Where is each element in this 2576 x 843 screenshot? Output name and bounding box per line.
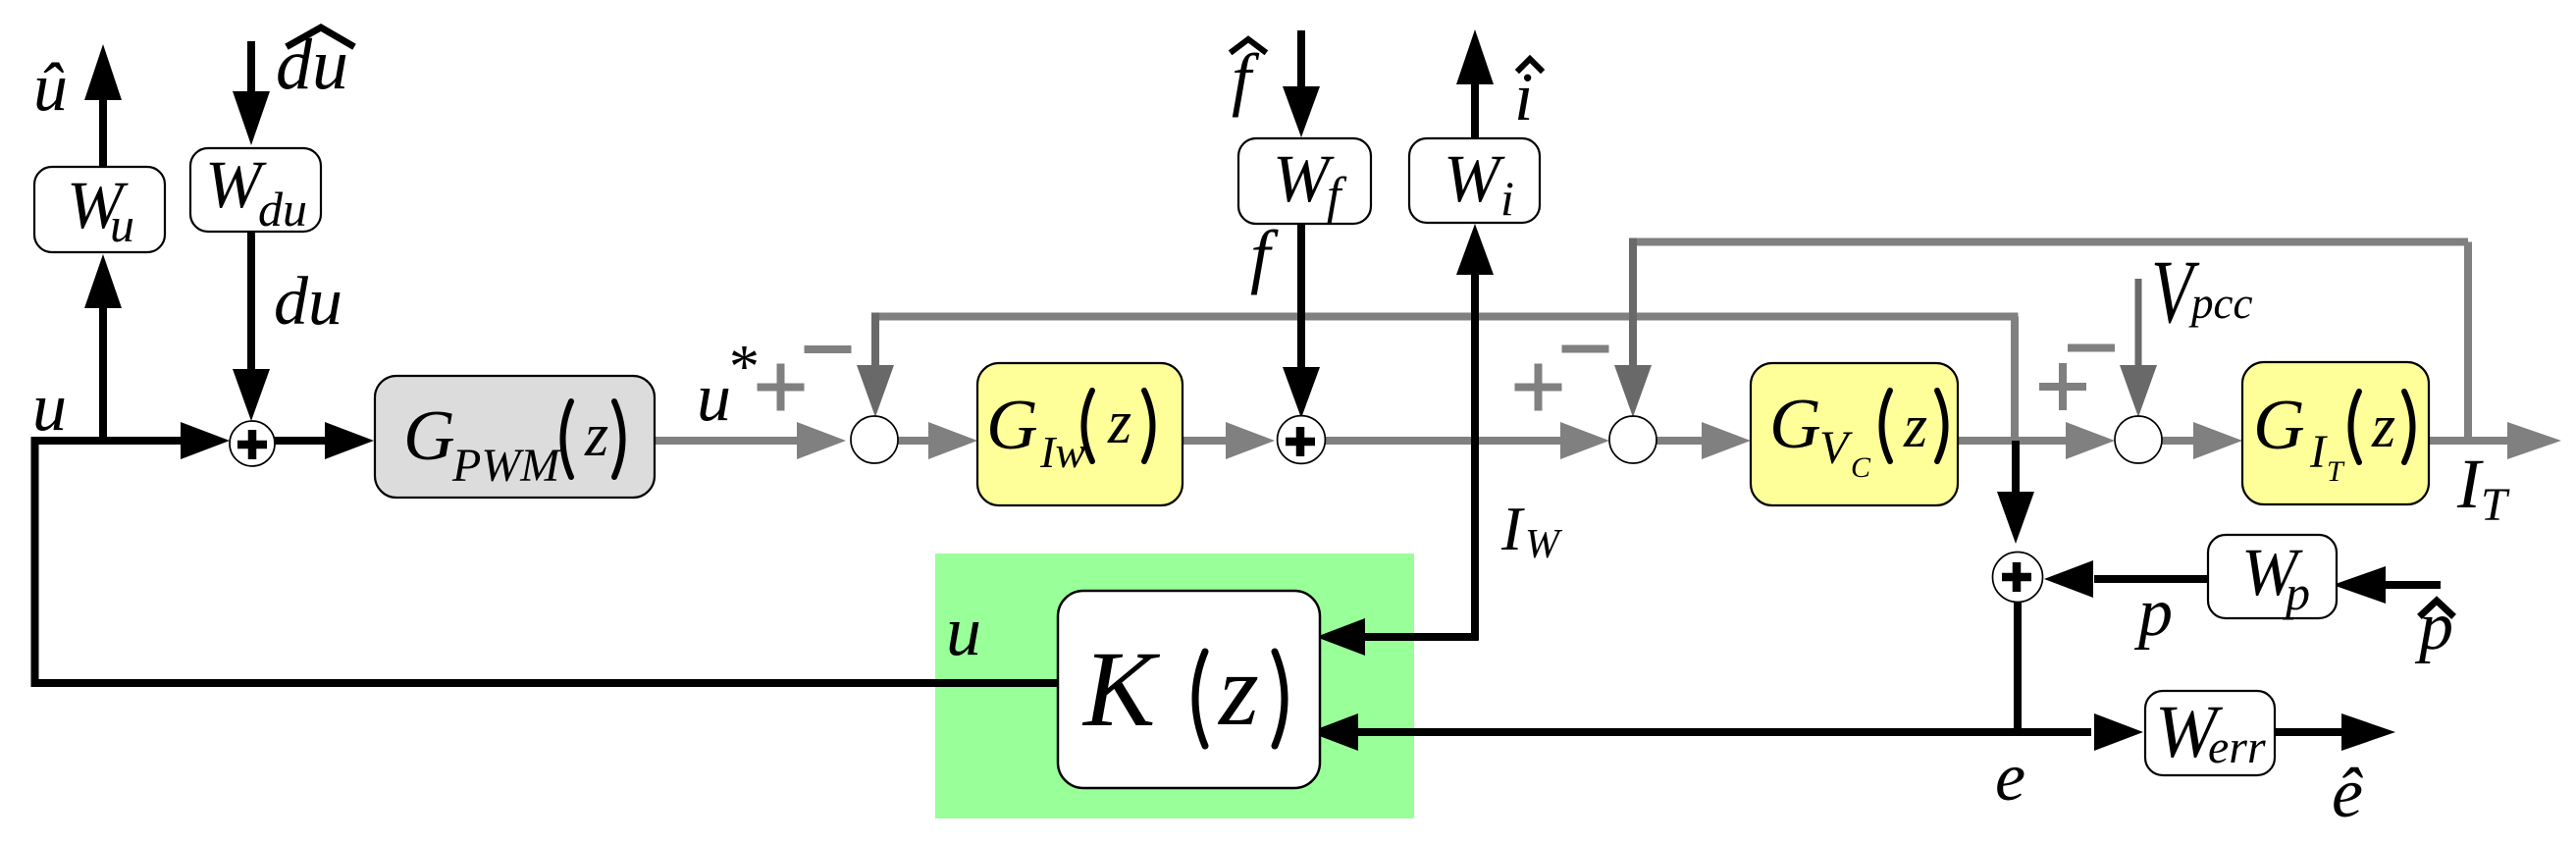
label I_W xyxy=(1500,494,1563,567)
wire W_err to e-hat output xyxy=(2275,713,2395,751)
wire branch up to W_u xyxy=(84,254,122,441)
minus sign at S3 xyxy=(1562,345,1609,353)
wire p-hat into W_p xyxy=(2333,566,2441,604)
svg-text:err: err xyxy=(2208,721,2266,773)
wire f-hat into W_f xyxy=(1283,30,1320,137)
label u input xyxy=(32,370,67,446)
svg-text:G: G xyxy=(1769,384,1821,463)
label p xyxy=(2133,575,2173,651)
svg-text:I: I xyxy=(2309,426,2328,478)
label du xyxy=(274,264,342,340)
svg-text:V: V xyxy=(1819,422,1853,474)
svg-text:K: K xyxy=(1081,629,1161,749)
wire du from W_du to summing C1 xyxy=(233,232,270,421)
wire p from W_p to summing C2 xyxy=(2044,560,2208,598)
summing junction C2 (black plus) xyxy=(1993,553,2043,603)
svg-text:u: u xyxy=(110,197,134,252)
svg-text:Iw: Iw xyxy=(1039,427,1085,477)
svg-text:p: p xyxy=(2133,575,2173,651)
svg-text:PWM: PWM xyxy=(451,440,562,492)
block G_Iw xyxy=(977,363,1183,505)
svg-text:z: z xyxy=(2371,394,2395,460)
wire feedback from Vc output node to summing junction S1 (gray) xyxy=(871,313,2019,442)
svg-text:W: W xyxy=(1273,141,1335,216)
svg-text:G: G xyxy=(403,395,455,475)
svg-text:C: C xyxy=(1851,451,1871,484)
svg-text:u: u xyxy=(946,592,981,670)
label e xyxy=(1995,740,2025,816)
controller region highlight xyxy=(935,553,1414,818)
svg-text:z: z xyxy=(1107,390,1131,456)
label G_Iw text xyxy=(986,385,1153,477)
minus sign at S4 xyxy=(2068,344,2115,352)
feedback drop arrow into S1 xyxy=(857,313,894,418)
wire e drop from Vc-output node into C2 xyxy=(1997,441,2034,544)
wire e horizontal into controller K and W_err xyxy=(1309,602,2143,751)
summing junction S2 (black plus) xyxy=(1278,416,1326,464)
label i-hat xyxy=(1514,59,1541,135)
wire f from W_f to S2 xyxy=(1283,224,1320,418)
disturbance V_pcc arrow into S4 xyxy=(2120,279,2157,417)
label u into controller xyxy=(946,592,981,670)
label e-hat xyxy=(2332,754,2363,832)
svg-text:W: W xyxy=(1444,141,1505,216)
block W_err xyxy=(2145,691,2275,775)
svg-text:G: G xyxy=(2253,385,2305,464)
svg-text:pcc: pcc xyxy=(2188,279,2252,328)
wire u down-left branch to controller K xyxy=(31,441,1059,687)
summing junction S1 xyxy=(851,416,898,463)
label f xyxy=(1250,216,1279,295)
label W_err text xyxy=(2155,691,2266,773)
wire S2 to summing junction S3 xyxy=(1324,422,1609,459)
wire feedback from IT output node to summing junction S3 (gray) xyxy=(1629,238,2472,442)
wire u* from G_PWM to summing junction S1 xyxy=(655,422,846,459)
wire G_Vc to summing junction S4 xyxy=(1958,422,2115,459)
label G_PWM text xyxy=(403,395,623,492)
svg-text:du: du xyxy=(274,264,342,340)
wire G_Iw to summing junction S2 xyxy=(1183,422,1275,459)
wire W_u to u-hat output xyxy=(84,44,122,168)
wire S4 to G_IT xyxy=(2162,422,2242,459)
svg-text:T: T xyxy=(2481,479,2510,531)
block W_p xyxy=(2208,535,2337,618)
block G_PWM xyxy=(375,376,655,498)
label W_p text xyxy=(2241,535,2310,620)
summing junction S3 xyxy=(1609,416,1656,463)
wire u input horizontal xyxy=(31,422,231,459)
summing junction C1 (black plus) xyxy=(230,421,275,466)
label u-star xyxy=(697,334,757,436)
minus sign at S1 xyxy=(805,345,852,353)
svg-text:I: I xyxy=(2456,445,2484,523)
plus sign at S3 xyxy=(1515,364,1562,411)
svg-text:p: p xyxy=(2283,565,2310,620)
label G_IT text xyxy=(2253,385,2413,488)
wire S1 to G_Iw xyxy=(898,422,977,459)
wire C1 to G_PWM xyxy=(275,422,374,459)
block W_u xyxy=(34,167,165,252)
svg-text:T: T xyxy=(2327,455,2345,488)
label W_f text xyxy=(1273,141,1347,224)
wire G_IT to output I_T xyxy=(2429,422,2561,459)
wire I_W tap up into W_i and left into K xyxy=(1316,224,1494,656)
svg-text:e: e xyxy=(1995,740,2025,816)
wire du-hat into W_du xyxy=(233,41,270,145)
label W_i text xyxy=(1444,141,1514,226)
svg-text:G: G xyxy=(986,385,1038,464)
block W_i xyxy=(1409,138,1540,223)
svg-text:du: du xyxy=(258,182,307,237)
feedback drop arrow into S3 xyxy=(1614,238,1652,418)
svg-text:i: i xyxy=(1500,171,1514,226)
svg-text:z: z xyxy=(1903,394,1927,460)
block K controller xyxy=(1058,591,1320,788)
wire S3 to G_Vc xyxy=(1656,422,1751,459)
wire i-hat out of W_i xyxy=(1456,29,1494,138)
label u-hat xyxy=(33,50,68,126)
block G_IT xyxy=(2242,362,2429,504)
svg-text:I: I xyxy=(1500,494,1525,563)
label I_T xyxy=(2456,445,2510,531)
block G_Vc xyxy=(1751,363,1958,505)
svg-text:u: u xyxy=(32,370,67,446)
block W_du xyxy=(190,148,321,232)
plus sign at S1 xyxy=(758,364,805,411)
svg-text:ê: ê xyxy=(2332,754,2363,832)
label V_pcc xyxy=(2151,241,2252,342)
svg-text:*: * xyxy=(726,334,757,400)
label du-hat xyxy=(276,25,351,105)
svg-text:W: W xyxy=(1525,522,1563,567)
block W_f xyxy=(1238,138,1371,224)
plus sign at S4 xyxy=(2039,363,2086,410)
svg-text:z: z xyxy=(584,402,608,469)
svg-text:û: û xyxy=(33,50,68,126)
label K(z) text xyxy=(1081,629,1285,749)
label p-hat xyxy=(2414,589,2453,664)
label W_du text xyxy=(205,147,307,237)
label G_Vc text xyxy=(1769,384,1946,484)
svg-text:z: z xyxy=(1217,632,1259,747)
label W_u text xyxy=(67,168,134,252)
label f-hat xyxy=(1232,39,1264,118)
summing junction S4 xyxy=(2115,416,2162,463)
